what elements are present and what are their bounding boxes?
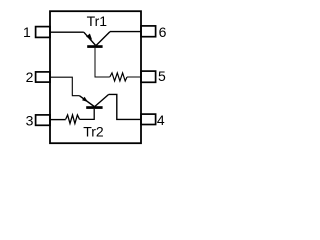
pin 3 pad: [36, 115, 50, 125]
Tr1 base lead wire: [95, 48, 110, 77]
Tr1 emitter diagonal: [84, 32, 96, 45]
Tr2 emitter arrow (PNP, points to base): [82, 97, 88, 102]
svg-text:2: 2: [26, 69, 34, 85]
wire R1 to pin 5: [127, 76, 141, 78]
Tr1 collector diagonal: [96, 32, 110, 46]
transistor Tr2 base bar: [86, 106, 102, 109]
svg-text:6: 6: [159, 24, 167, 40]
svg-text:3: 3: [26, 112, 34, 128]
pin 6 pad: [141, 26, 156, 37]
svg-text:Tr2: Tr2: [83, 123, 104, 139]
svg-text:5: 5: [158, 68, 166, 84]
wire pin 3 to R2: [50, 119, 66, 121]
wire Tr1 collector to pin 6: [110, 31, 141, 33]
resistor R2: [66, 115, 80, 124]
wire Tr2 collector to pin 4: [109, 94, 141, 119]
pin 5 pad: [141, 71, 156, 82]
svg-text:Tr1: Tr1: [87, 13, 108, 29]
wire pin 2 to Tr2 emitter: [50, 77, 79, 96]
Tr2 base lead wire: [80, 109, 95, 120]
wire pin 1 to Tr1 emitter: [50, 31, 84, 33]
transistor Tr1 base bar: [87, 45, 102, 48]
resistor R1: [110, 73, 127, 81]
Tr2 emitter diagonal: [79, 96, 94, 107]
svg-text:1: 1: [23, 24, 31, 40]
pin 2 pad: [36, 72, 50, 82]
Tr2 collector diagonal: [95, 94, 109, 106]
package outline: [50, 11, 141, 143]
Tr1 emitter arrow (PNP, points to base): [86, 34, 92, 40]
svg-text:4: 4: [157, 112, 165, 128]
pin 1 pad: [36, 27, 50, 38]
pin 4 pad: [141, 114, 156, 124]
